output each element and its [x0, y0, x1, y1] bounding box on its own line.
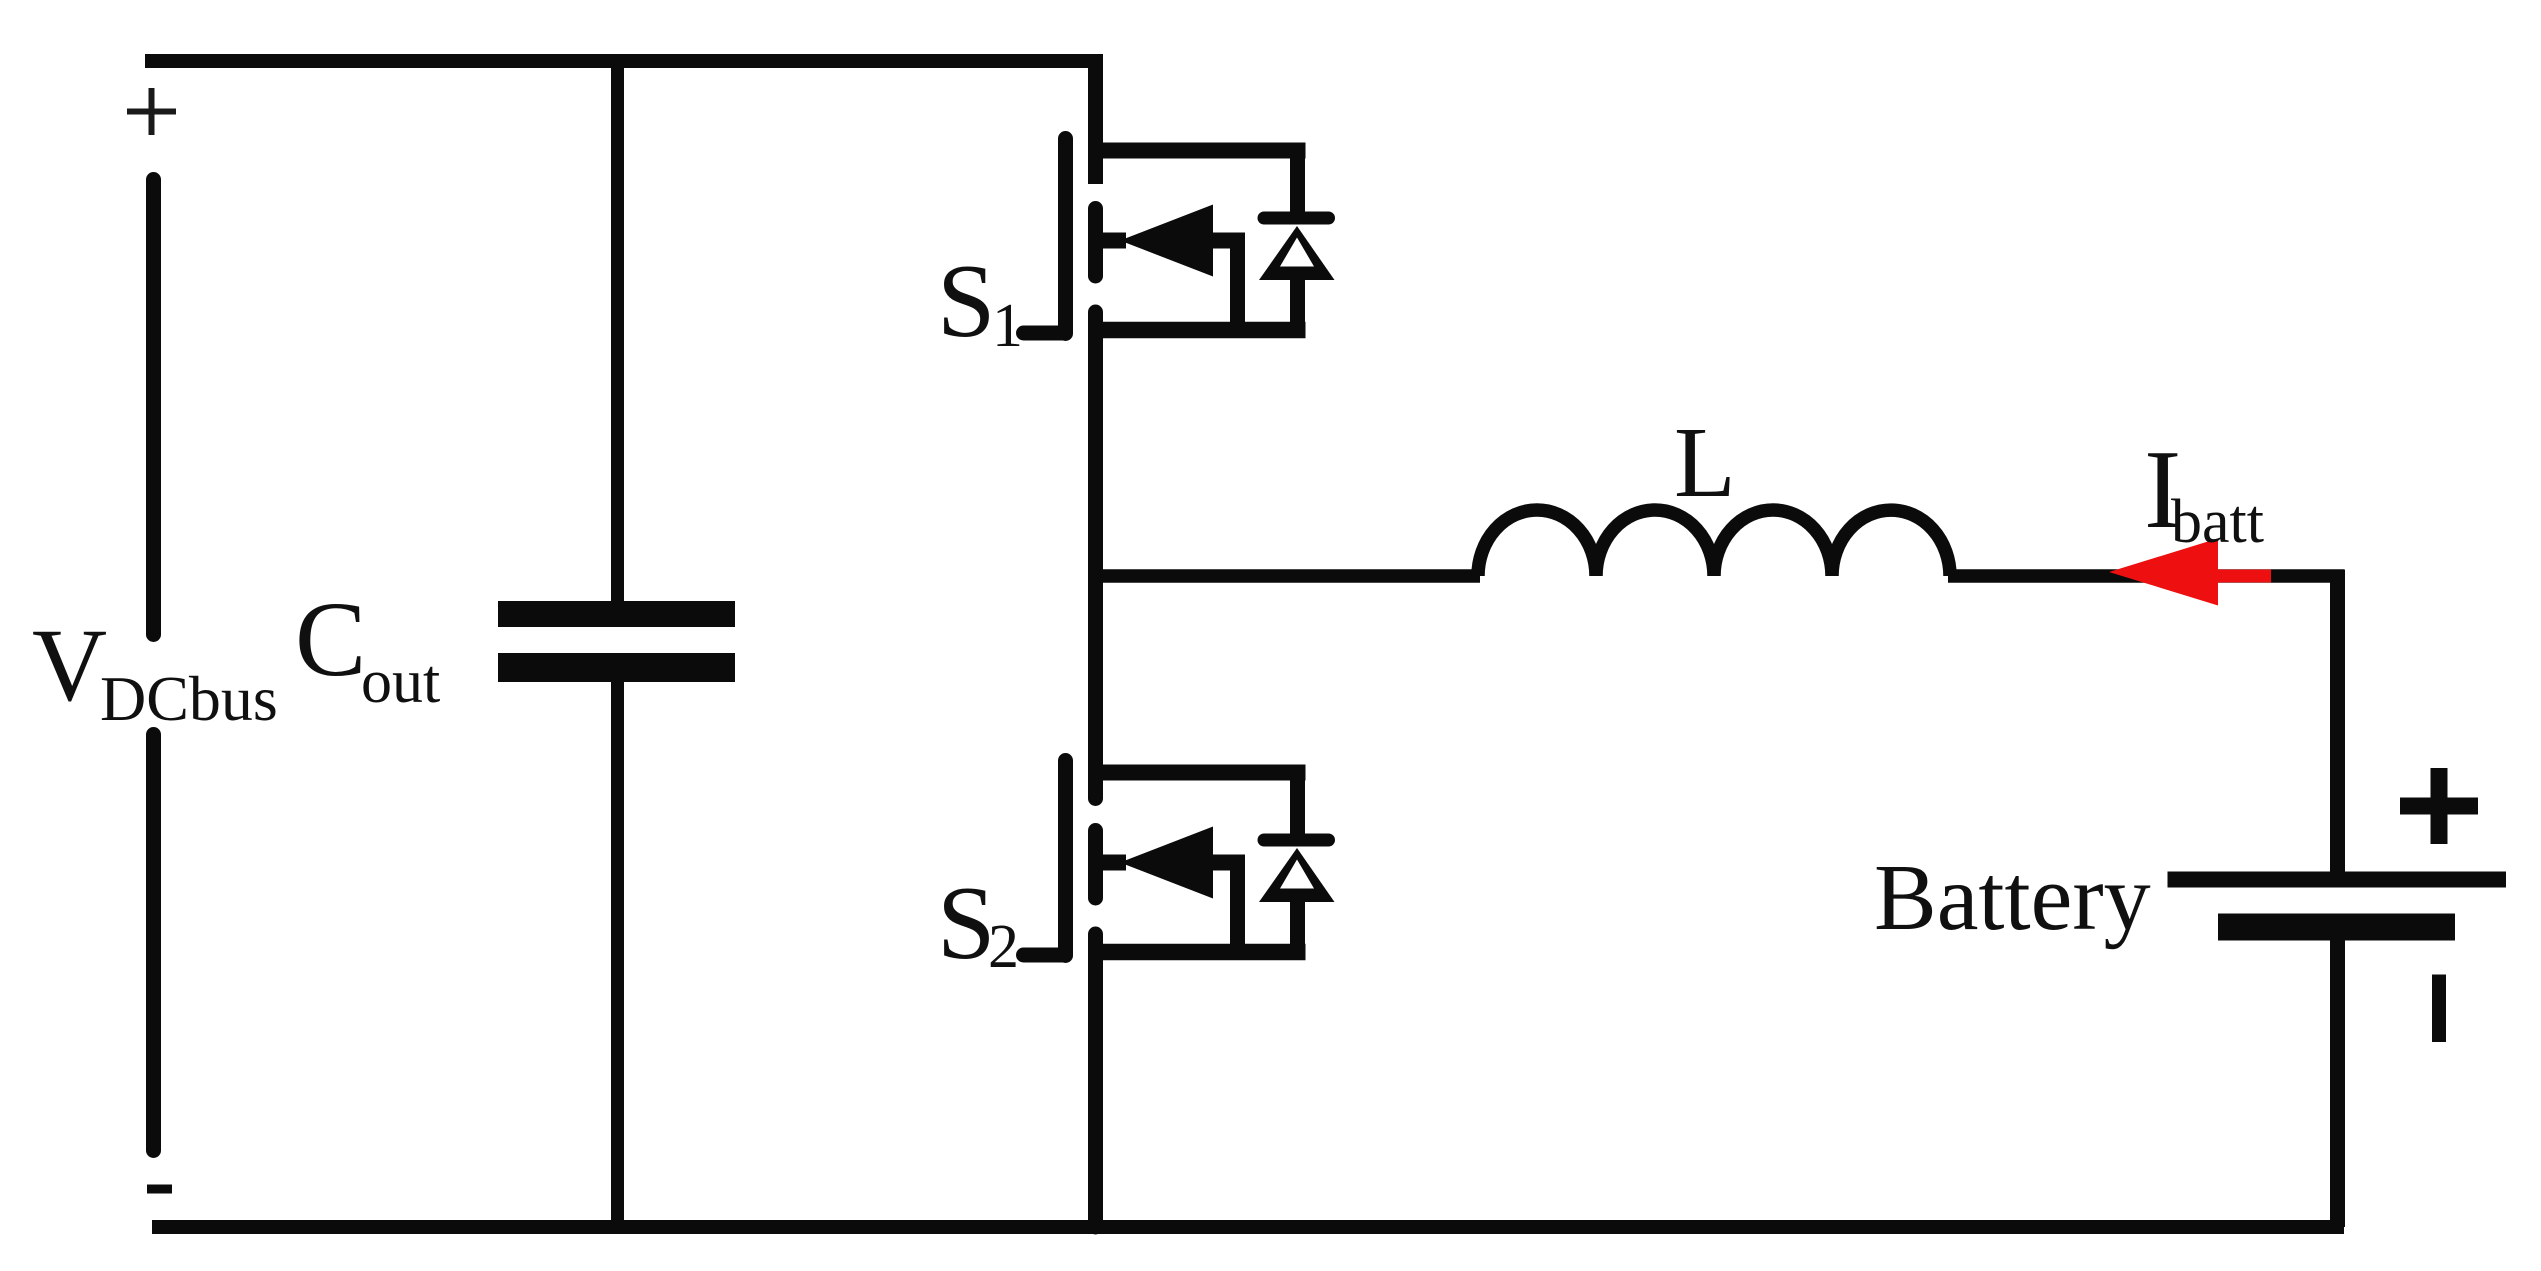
battery + sign: [2400, 768, 2478, 844]
battery bottom plate (-): [2218, 914, 2455, 941]
wire bottom rail: [152, 1220, 2344, 1234]
svg-text:batt: batt: [2171, 488, 2264, 556]
battery - sign: [2432, 975, 2446, 1043]
capacitor C_out plate 1: [498, 601, 735, 627]
current arrow I_batt: [2109, 538, 2271, 605]
wire S2 source to bottom rail: [1088, 934, 1103, 1227]
wire mid node to inductor: [1096, 569, 1481, 583]
wire S1 source to S2 drain (mid node): [1088, 312, 1103, 799]
transistor S2: [1024, 761, 1306, 956]
svg-text:L: L: [1674, 406, 1736, 518]
wire S2 drain mid dash: [1088, 831, 1103, 899]
wire top rail: [145, 54, 1103, 68]
svg-text:1: 1: [992, 292, 1023, 360]
wire inductor to battery corner: [1948, 569, 2344, 583]
diode D2 (S2 body diode): [1259, 765, 1335, 960]
capacitor C_out bottom lead: [611, 682, 624, 1227]
transistor S1: [1024, 139, 1306, 334]
V_DCbus source lead lower: [146, 735, 161, 1151]
wire battery branch down: [2330, 570, 2345, 872]
svg-text:out: out: [361, 648, 440, 716]
diode D1 (S1 body diode): [1259, 143, 1335, 338]
battery top plate (+): [2168, 872, 2507, 888]
V_DCbus source negative terminal -: [147, 1185, 172, 1194]
svg-text:S: S: [937, 864, 995, 981]
V_DCbus source positive terminal +: [127, 88, 176, 135]
battery lower lead: [2330, 940, 2345, 1227]
capacitor C_out plate 2: [498, 653, 735, 682]
svg-text:Battery: Battery: [1874, 846, 2151, 950]
svg-text:C: C: [295, 581, 366, 699]
svg-text:S: S: [937, 242, 995, 359]
svg-text:2: 2: [988, 913, 1019, 981]
svg-text:DCbus: DCbus: [100, 663, 278, 734]
wire S1 drain from top rail: [1088, 56, 1103, 184]
svg-text:V: V: [32, 608, 107, 723]
inductor L: [1478, 510, 1950, 576]
V_DCbus source lead upper: [146, 180, 161, 635]
capacitor C_out top lead: [611, 56, 624, 601]
